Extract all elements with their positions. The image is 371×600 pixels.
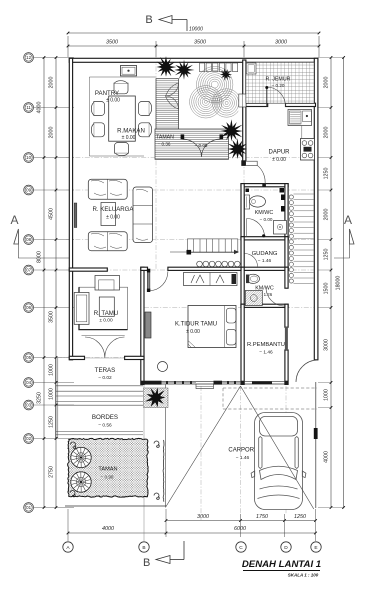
dapur sink: [303, 111, 312, 122]
svg-text:3000: 3000: [197, 514, 209, 520]
side yard planks: [294, 193, 314, 195]
wall pembantu right lower: [285, 350, 288, 384]
sofa right: [133, 187, 153, 243]
svg-text:06: 06: [26, 305, 31, 310]
section marker B top symbol: [159, 16, 172, 24]
grid bubble C: [236, 542, 246, 552]
gudang door arc: [245, 254, 258, 267]
svg-text:− 0.36: − 0.36: [158, 142, 171, 147]
window bay sill: [196, 384, 214, 389]
svg-text:3500: 3500: [194, 40, 206, 46]
dining table: [109, 96, 136, 141]
grid bubble 05: [34, 357, 74, 359]
dapur door arc: [241, 160, 245, 166]
svg-text:6000: 6000: [234, 526, 246, 532]
svg-text:SKALA 1 : 100: SKALA 1 : 100: [288, 573, 319, 578]
svg-text:08: 08: [26, 237, 31, 242]
tamu chair top: [95, 276, 120, 291]
svg-text:1250: 1250: [49, 416, 55, 428]
wall kmwc2 left: [241, 267, 244, 307]
svg-text:2000: 2000: [323, 127, 329, 139]
svg-text:− 1.46: − 1.46: [236, 455, 250, 461]
toilet kmwc1: [245, 195, 250, 209]
floor edge makan: [89, 77, 155, 156]
svg-text:1250: 1250: [294, 514, 306, 520]
right dim line outer 18000: [343, 58, 345, 508]
garden corner curl 156,495: [154, 493, 159, 499]
planter star box: [144, 388, 169, 408]
side gate arc: [296, 360, 318, 382]
wall kmwc1 left: [241, 184, 244, 240]
wall kmwc1 bottom: [241, 237, 288, 240]
wall pembantu right upper: [285, 304, 288, 327]
gate post right: [314, 428, 318, 439]
svg-text:1000: 1000: [49, 364, 55, 376]
svg-text:04: 04: [26, 380, 31, 385]
grid bubble 11: [34, 107, 74, 109]
svg-text:− 0.56: − 0.56: [98, 423, 112, 429]
grid bubble 12: [34, 57, 74, 59]
svg-text:TAMAN: TAMAN: [156, 135, 174, 141]
kmwc1 hinge dots: [281, 195, 285, 201]
svg-text:2000: 2000: [49, 77, 55, 89]
garden bed: [68, 438, 149, 497]
wall bottom chunk b: [214, 381, 223, 385]
teras left edge: [55, 358, 57, 439]
dim line 10000: [68, 32, 319, 34]
outer wall right: [314, 58, 318, 360]
coffee table keluarga: [101, 203, 116, 226]
grid bubble 10: [34, 157, 74, 159]
grid dash y190: [66, 189, 318, 191]
svg-text:03: 03: [26, 403, 31, 408]
carport X left: [166, 386, 241, 507]
svg-text:1000: 1000: [49, 388, 55, 400]
svg-text:2000: 2000: [323, 77, 329, 89]
svg-text:A: A: [11, 213, 19, 227]
tree walkway: [145, 388, 165, 408]
svg-text:3500: 3500: [49, 311, 55, 323]
garden tree at 81,457: [71, 447, 91, 467]
svg-text:2000: 2000: [49, 127, 55, 139]
bed: [188, 306, 236, 348]
svg-text:10000: 10000: [189, 27, 203, 33]
wall gudang right: [285, 237, 288, 271]
side yard stones: [289, 195, 293, 199]
wall bottom chunk d: [252, 382, 272, 385]
wall bedroom top west: [141, 267, 148, 270]
svg-text:R.MAKAN: R.MAKAN: [117, 127, 145, 134]
svg-text:DENAH LANTAI 1: DENAH LANTAI 1: [242, 559, 321, 570]
svg-text:1750: 1750: [256, 514, 268, 520]
svg-text:B: B: [145, 14, 152, 26]
grid bubble 04: [34, 382, 74, 384]
grid bubble 08: [34, 239, 74, 241]
taman planter top: [200, 63, 205, 72]
svg-text:10: 10: [26, 155, 31, 160]
chair right 1: [139, 102, 152, 116]
svg-text:R. JEMUR: R. JEMUR: [265, 77, 290, 83]
svg-text:1250: 1250: [323, 249, 329, 261]
grid bubble 03: [34, 404, 74, 406]
wall niche taman east: [239, 94, 246, 107]
outer wall left: [69, 58, 72, 360]
taman door arcs bottom: [183, 139, 221, 157]
window band 1: [162, 382, 197, 384]
grid bubble 09: [34, 189, 74, 191]
grid dash y239: [66, 239, 318, 241]
grid bubble 06: [34, 307, 74, 309]
svg-text:4000: 4000: [102, 526, 114, 532]
garden path right strip: [162, 440, 165, 502]
dim line top 3500-3500-3000: [68, 45, 319, 47]
svg-text:− 1.46: − 1.46: [259, 350, 273, 356]
wall gudang left: [241, 237, 244, 271]
sofa top: [88, 179, 127, 199]
grid dash y157: [66, 157, 318, 159]
svg-text:3000: 3000: [275, 40, 287, 46]
grid bubble 07: [34, 269, 74, 271]
svg-text:± 0.00: ± 0.00: [186, 329, 200, 335]
jemur tiles: [246, 62, 314, 103]
tree A5: [227, 138, 247, 159]
bottom ext lines: [67, 509, 69, 541]
walkway edge: [165, 385, 167, 508]
teras steps: [56, 385, 143, 387]
svg-text:05: 05: [26, 355, 31, 360]
chair bottom: [115, 143, 129, 156]
garden tree at 81,482: [71, 472, 91, 492]
svg-text:18000: 18000: [335, 276, 341, 291]
window band 2: [222, 382, 241, 384]
chair top: [114, 81, 128, 94]
svg-text:GUDANG: GUDANG: [252, 251, 278, 257]
svg-text:4500: 4500: [49, 208, 55, 220]
garden corner curl 73,444: [71, 442, 76, 448]
svg-text:R. KELUARGA: R. KELUARGA: [93, 206, 135, 213]
grid bubble 01: [34, 507, 74, 509]
keluarga wall bar: [74, 203, 77, 228]
wall hall top keluarga: [69, 268, 107, 271]
svg-text:3500: 3500: [106, 40, 118, 46]
svg-text:TAMAN: TAMAN: [98, 467, 117, 473]
grid bubble 02: [34, 438, 74, 440]
bordes bottom steps: [56, 431, 143, 433]
tree A3: [220, 68, 232, 81]
taman door arcs left: [166, 83, 179, 109]
taman spiral stones: [190, 66, 241, 118]
svg-text:− 0.05: − 0.05: [195, 143, 208, 148]
tree A2: [174, 60, 194, 80]
svg-text:02: 02: [26, 436, 31, 441]
stove: [301, 139, 315, 161]
svg-text:4000: 4000: [37, 102, 43, 114]
wall teras front west: [69, 356, 84, 359]
tree A1: [157, 56, 177, 77]
basin kmwc1: [274, 221, 287, 235]
grid dash x241 carport: [240, 386, 242, 514]
bottom dim line lower: [68, 532, 316, 534]
svg-text:11: 11: [26, 105, 31, 110]
svg-text:1000: 1000: [323, 389, 329, 401]
wall jemur bottom west: [243, 103, 268, 106]
carport X right: [241, 386, 314, 509]
svg-text:− 0.02: − 0.02: [98, 375, 112, 381]
svg-text:R.PEMBANTU: R.PEMBANTU: [247, 342, 285, 348]
jemur door arc: [267, 87, 286, 107]
shower kmwc2: [245, 291, 262, 306]
svg-text:B: B: [142, 545, 145, 551]
wall kmwc2 bottom: [241, 304, 288, 307]
wall gudang bottom: [241, 267, 288, 270]
tree A4: [220, 119, 242, 141]
left dim line outer: [43, 58, 45, 508]
stairs: [187, 239, 237, 253]
garden corner curl 72,493: [70, 491, 75, 497]
chair left 1: [91, 102, 104, 116]
svg-text:− 0.20: − 0.20: [272, 83, 285, 88]
taman band left: [156, 79, 179, 129]
chair right 2: [139, 123, 152, 137]
door pembantu leaf: [285, 327, 288, 350]
door leaf diamond: [139, 230, 150, 241]
wall kmwc1 right: [285, 184, 288, 240]
wall kmwc2 right: [285, 267, 288, 288]
plot edge right lower: [315, 382, 317, 508]
wall dapur west: [243, 103, 246, 164]
svg-text:KM/WC: KM/WC: [255, 210, 274, 216]
wall bedroom left: [141, 267, 144, 384]
grid dash x156: [155, 57, 157, 270]
garden plot bottom line: [65, 505, 166, 507]
svg-text:− 0.00: − 0.00: [260, 217, 273, 222]
car: [251, 413, 306, 510]
grid dash y307: [144, 307, 318, 309]
svg-text:CARPORT: CARPORT: [228, 448, 258, 454]
grid dash x201 carport: [200, 386, 202, 520]
svg-text:07: 07: [26, 268, 31, 273]
wall jemur bottom east: [286, 103, 316, 106]
svg-text:09: 09: [26, 188, 31, 193]
svg-text:8000: 8000: [37, 251, 43, 263]
carport dashed canopy: [223, 388, 317, 409]
tamu double door: [85, 337, 125, 358]
grid bubble B: [139, 542, 149, 552]
svg-text:4000: 4000: [323, 451, 329, 463]
svg-text:± 0.00: ± 0.00: [106, 97, 120, 103]
svg-text:3250: 3250: [37, 392, 43, 404]
grid dash x286 carport: [285, 386, 287, 514]
kmwc2 door arc: [266, 288, 285, 307]
svg-text:E: E: [314, 545, 317, 551]
dapur sink counter: [288, 110, 312, 126]
wall jemur left: [243, 60, 246, 107]
svg-text:1500: 1500: [323, 283, 329, 295]
grid bubble E: [311, 542, 321, 552]
bedroom wardrobe: [145, 312, 151, 338]
svg-text:B: B: [143, 557, 150, 569]
svg-text:D: D: [284, 545, 288, 551]
svg-text:R. TAMU: R. TAMU: [94, 310, 119, 317]
wall bottom chunk c: [241, 381, 244, 385]
svg-text:± 0.00: ± 0.00: [106, 215, 120, 221]
wall bottom chunk a: [141, 381, 162, 385]
outer wall top: [69, 58, 318, 62]
tamu table: [99, 297, 114, 316]
bottom dim line upper: [166, 520, 316, 522]
jemur drain box: [246, 63, 256, 74]
svg-text:TERAS: TERAS: [95, 367, 116, 374]
wall kmwc1 top: [241, 184, 288, 187]
svg-text:DAPUR: DAPUR: [268, 150, 290, 156]
taman band bottom: [155, 129, 229, 159]
svg-text:− 1.46: − 1.46: [258, 258, 272, 264]
right dim line inner: [330, 58, 332, 508]
svg-text:A: A: [344, 213, 352, 227]
bedside table: [158, 362, 168, 372]
wall teras front east: [125, 356, 144, 359]
grid dash y357: [57, 357, 144, 359]
tamu carpet: [79, 287, 128, 329]
wall bottom chunk e: [285, 381, 288, 385]
svg-text:01: 01: [26, 505, 31, 510]
svg-text:2750: 2750: [49, 466, 55, 478]
svg-text:PANTRY: PANTRY: [95, 90, 119, 97]
garden corner curl 156,443: [154, 441, 159, 447]
pantry counter: [121, 66, 137, 76]
left dim line inner: [55, 58, 57, 508]
svg-text:2000: 2000: [323, 209, 329, 221]
svg-text:BORDES: BORDES: [92, 414, 118, 421]
svg-text:3000: 3000: [323, 339, 329, 351]
sofa bottom: [88, 232, 127, 251]
grid bubble A: [63, 542, 73, 552]
wall pembantu left: [241, 304, 244, 384]
grid dash x244: [243, 57, 245, 190]
dapur washer: [290, 111, 302, 124]
toilet kmwc2: [247, 274, 260, 283]
svg-text:± 0.00: ± 0.00: [122, 135, 136, 141]
dapur counter edge: [301, 126, 303, 161]
svg-text:− 0.90: − 0.90: [101, 475, 114, 480]
chair left 2: [91, 123, 104, 137]
wall bottom bedroom base: [141, 380, 288, 382]
stair balusters: [197, 261, 203, 267]
grid line B bottom: [143, 360, 145, 541]
grid bubble D: [281, 542, 291, 552]
grid dash y270: [66, 269, 318, 271]
svg-text:1250: 1250: [323, 168, 329, 180]
hall wardrobe: [184, 273, 238, 286]
svg-text:12: 12: [26, 55, 31, 60]
kmwc1 door arc: [247, 219, 265, 238]
svg-text:C: C: [239, 545, 243, 551]
bedroom door arc: [147, 272, 150, 290]
svg-text:K.TIDUR TAMU: K.TIDUR TAMU: [175, 322, 217, 328]
svg-text:± 0.00: ± 0.00: [99, 318, 113, 324]
svg-text:± 0.00: ± 0.00: [272, 157, 286, 163]
wall bedroom top east: [168, 267, 241, 270]
tamu sofa left: [74, 293, 89, 325]
